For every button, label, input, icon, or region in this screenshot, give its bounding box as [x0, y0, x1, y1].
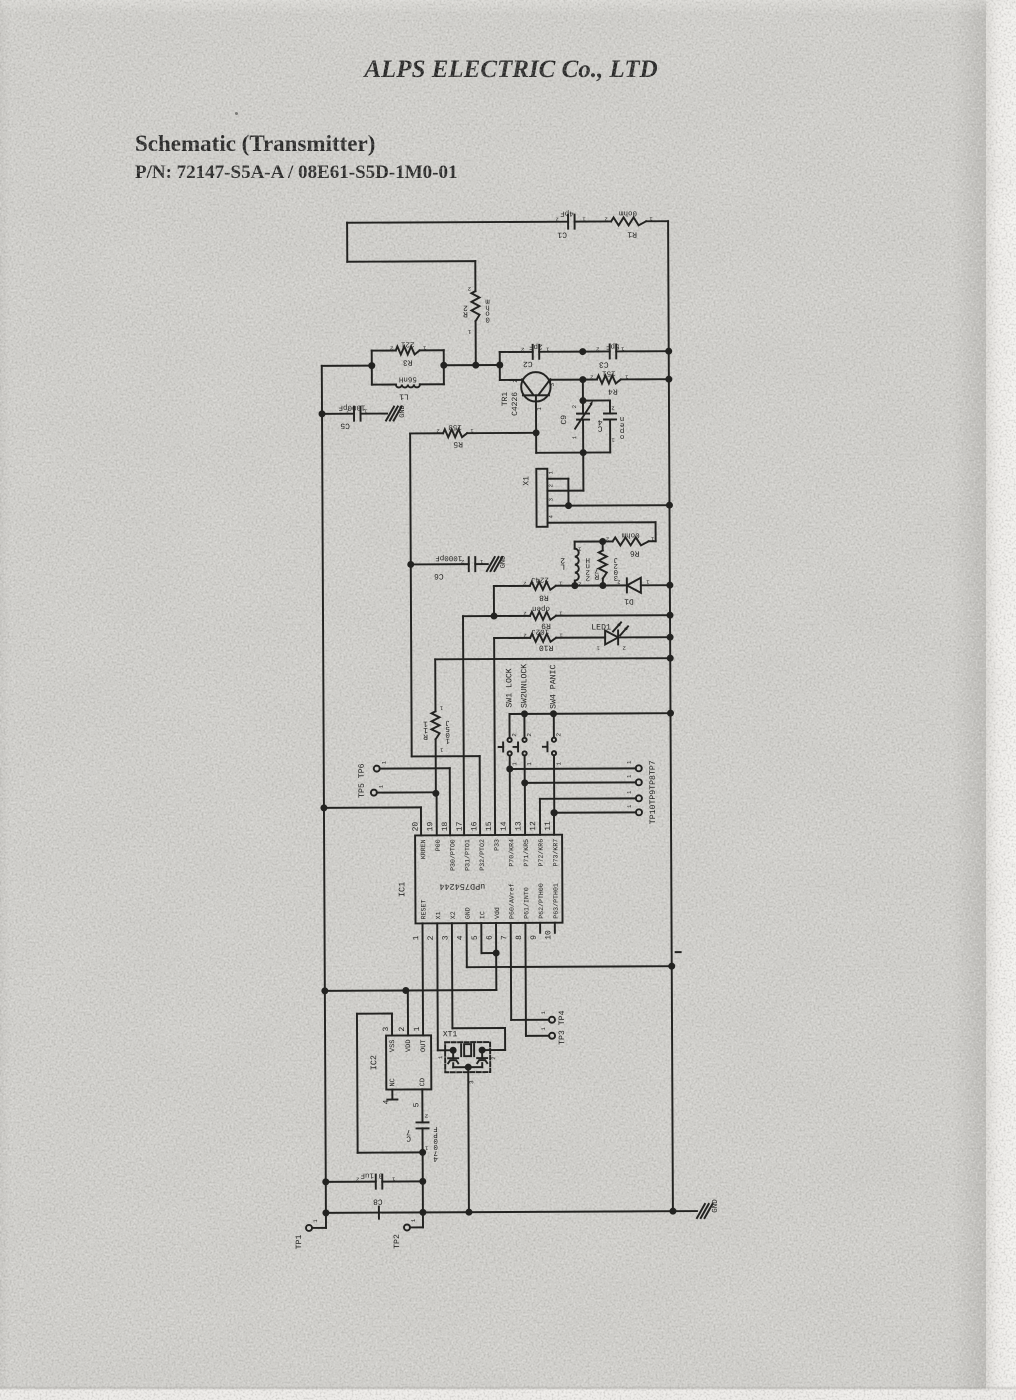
svg-text:Vdd: Vdd: [494, 907, 501, 919]
test point TP3: [540, 1026, 555, 1038]
svg-text:IC: IC: [479, 911, 486, 919]
svg-text:2: 2: [398, 1026, 407, 1031]
svg-text:1: 1: [381, 760, 388, 764]
ground GND bottom: [697, 1199, 720, 1218]
svg-text:7: 7: [500, 935, 509, 940]
svg-text:1: 1: [645, 578, 649, 585]
capacitor C7: [406, 1089, 438, 1162]
wire pin10 stub: [554, 923, 556, 933]
svg-text:D1: D1: [624, 596, 634, 605]
svg-text:2: 2: [622, 644, 625, 651]
svg-text:9: 9: [530, 935, 539, 940]
resistor R10: [494, 627, 563, 652]
svg-text:0ohm: 0ohm: [621, 530, 640, 539]
IC U2 reset IC2: [369, 1026, 431, 1107]
resistor R8: [494, 574, 607, 602]
wire left bus: [322, 366, 326, 1213]
svg-text:1: 1: [312, 1219, 319, 1223]
svg-text:1: 1: [626, 790, 633, 794]
svg-text:TP5 TP6: TP5 TP6: [358, 763, 367, 798]
connector X1: [522, 452, 673, 542]
svg-text:2: 2: [523, 632, 526, 639]
svg-text:102J: 102J: [531, 627, 549, 636]
svg-text:L1: L1: [399, 391, 409, 400]
svg-text:3: 3: [441, 935, 450, 940]
capacitor C1: [555, 208, 611, 238]
svg-text:2: 2: [346, 408, 349, 415]
svg-text:4: 4: [548, 514, 555, 518]
svg-text:2: 2: [425, 1112, 428, 1119]
svg-text:P70/KR4: P70/KR4: [508, 839, 515, 867]
test point TP2: [393, 1212, 423, 1249]
svg-text:C5: C5: [340, 421, 350, 430]
crystal XT1: [437, 1030, 497, 1084]
svg-text:2: 2: [596, 346, 599, 353]
svg-text:C3: C3: [599, 359, 609, 368]
svg-text:R: R: [594, 572, 599, 581]
wire X1 net: [436, 923, 439, 1050]
svg-text:LED1: LED1: [591, 623, 611, 632]
ground GND near C6: [487, 556, 508, 571]
svg-text:16: 16: [470, 821, 479, 831]
label TP10 TP9 TP8 TP7: [649, 760, 658, 824]
svg-text:2: 2: [356, 1176, 359, 1183]
wire node mid: [322, 361, 504, 369]
svg-text:KRREN: KRREN: [420, 839, 427, 859]
svg-text:3: 3: [382, 1027, 391, 1032]
svg-text:15: 15: [485, 821, 494, 831]
svg-text:GND: GND: [465, 907, 472, 919]
svg-text:P62/PTH00: P62/PTH00: [538, 883, 545, 919]
svg-text:IC1: IC1: [397, 882, 407, 897]
capacitor C8: [322, 1170, 426, 1206]
diode D1: [603, 578, 674, 606]
svg-text:18: 18: [441, 821, 450, 831]
wire pin7 to TP4: [511, 923, 549, 1020]
wire pin14 stub: [509, 769, 511, 835]
svg-text:XT1: XT1: [443, 1030, 458, 1039]
wire pin20: [320, 804, 421, 836]
capacitor C2: [500, 342, 583, 368]
wire right bus: [668, 221, 673, 1210]
svg-text:C6: C6: [434, 571, 444, 580]
svg-text:SW4 PANIC: SW4 PANIC: [549, 665, 558, 709]
svg-text:R3: R3: [403, 357, 413, 366]
svg-text:1: 1: [412, 935, 421, 940]
wire R8 left drop: [490, 586, 497, 620]
svg-text:TP10TP9TP8TP7: TP10TP9TP8TP7: [649, 760, 658, 824]
wire IC2 pin3 VSS: [357, 1013, 426, 1156]
svg-text:X1: X1: [435, 911, 442, 919]
wire R9 to pin17: [463, 616, 464, 835]
wire pin11 stub: [550, 809, 557, 835]
capacitor C5: [318, 403, 387, 430]
svg-text:TP2: TP2: [393, 1234, 402, 1249]
test point TP1: [295, 1213, 326, 1250]
svg-text:2: 2: [571, 405, 578, 408]
svg-text:2: 2: [468, 285, 471, 292]
svg-text:20: 20: [412, 822, 421, 832]
svg-text:221: 221: [400, 339, 414, 348]
svg-text:SW2UNLOCK: SW2UNLOCK: [520, 664, 529, 708]
resistor R11: [423, 659, 451, 797]
resistor R1: [604, 208, 668, 238]
svg-text:11: 11: [544, 821, 553, 831]
svg-text:1: 1: [526, 762, 533, 766]
IC U1 uPD754244: [397, 821, 563, 941]
capacitor C3: [579, 341, 672, 368]
svg-text:1: 1: [626, 804, 633, 808]
svg-text:2: 2: [511, 733, 518, 737]
svg-text:P60/AVref: P60/AVref: [509, 883, 516, 919]
svg-text:OUT: OUT: [420, 1039, 428, 1052]
svg-text:1: 1: [445, 736, 450, 744]
svg-text:R: R: [463, 309, 468, 318]
svg-text:1: 1: [437, 1055, 444, 1059]
svg-text:VSS: VSS: [389, 1040, 397, 1053]
svg-text:8: 8: [515, 935, 524, 940]
svg-text:1: 1: [413, 1026, 422, 1031]
svg-text:1: 1: [540, 1010, 547, 1014]
svg-text:3: 3: [547, 498, 554, 501]
svg-text:2: 2: [555, 216, 558, 223]
svg-text:1: 1: [596, 645, 600, 652]
svg-text:3: 3: [468, 1080, 475, 1084]
svg-text:open: open: [532, 604, 550, 612]
test point TP6: [374, 760, 450, 836]
svg-text:2: 2: [611, 404, 614, 411]
svg-text:uPD754244: uPD754244: [439, 881, 485, 891]
svg-text:4pF: 4pF: [560, 209, 574, 217]
svg-text:2: 2: [590, 374, 593, 381]
svg-text:2: 2: [436, 427, 439, 434]
svg-text:4: 4: [456, 935, 465, 940]
svg-text:P33: P33: [494, 839, 501, 851]
svg-text:1: 1: [556, 762, 563, 766]
svg-text:C: C: [597, 424, 602, 433]
LED LED1: [556, 622, 674, 652]
svg-text:2: 2: [512, 379, 519, 383]
svg-text:1: 1: [439, 746, 443, 753]
svg-text:2: 2: [555, 733, 562, 737]
switch SW2: [513, 664, 533, 787]
svg-text:GND: GND: [711, 1199, 720, 1213]
svg-text:1: 1: [467, 328, 471, 335]
svg-text:2: 2: [390, 345, 393, 352]
svg-text:RESET: RESET: [420, 900, 427, 920]
ground GND near C5: [386, 405, 407, 420]
svg-text:2: 2: [461, 558, 464, 565]
resistor R4: [579, 368, 672, 395]
svg-text:C: C: [406, 1133, 411, 1142]
inductor L2: [560, 542, 603, 588]
svg-text:2: 2: [604, 215, 607, 222]
wire pin8 to TP3: [525, 923, 549, 1036]
svg-text:6: 6: [486, 935, 495, 940]
svg-text:17: 17: [456, 821, 465, 831]
svg-text:5: 5: [412, 1102, 421, 1107]
svg-text:1: 1: [378, 784, 385, 788]
svg-text:P72/KR6: P72/KR6: [538, 839, 545, 867]
test point TP4: [540, 1010, 555, 1022]
svg-text:5pF: 5pF: [606, 341, 620, 349]
wire IC2 pin2 VDD: [407, 990, 409, 1035]
svg-text:2: 2: [490, 1056, 497, 1059]
svg-text:R10: R10: [539, 643, 554, 652]
wire R10 to pin15: [493, 638, 496, 835]
part number line: [135, 162, 457, 184]
svg-text:4: 4: [433, 1154, 438, 1162]
svg-text:P63/PTH01: P63/PTH01: [553, 883, 560, 919]
wire base riser: [499, 352, 501, 380]
svg-text:P61/INT0: P61/INT0: [523, 887, 530, 919]
transistor TR1: [500, 372, 583, 433]
resistor R2: [463, 261, 490, 365]
svg-text:2: 2: [523, 580, 526, 587]
subtitle Schematic (Transmitter): [135, 131, 375, 157]
wire X2 net: [452, 923, 505, 1050]
svg-text:X1: X1: [522, 476, 531, 486]
resistor R7: [594, 541, 618, 585]
resistor R9: [463, 603, 674, 630]
switch SW3: [543, 665, 563, 817]
svg-text:1: 1: [511, 762, 518, 766]
svg-text:0.1uF: 0.1uF: [360, 1171, 383, 1180]
svg-text:2pF: 2pF: [529, 342, 543, 351]
svg-text:1: 1: [611, 436, 615, 443]
svg-text:SW1 LOCK: SW1 LOCK: [505, 668, 514, 707]
svg-text:IC2: IC2: [369, 1055, 379, 1070]
svg-text:10: 10: [544, 930, 553, 940]
label TP3 TP4: [558, 1010, 567, 1045]
wire pin13 stub: [524, 783, 526, 835]
svg-text:1: 1: [626, 760, 633, 764]
inductor L1: [372, 374, 444, 400]
svg-text:19: 19: [426, 822, 435, 832]
wire node row659: [435, 655, 674, 663]
resistor R6: [599, 530, 656, 557]
svg-text:1: 1: [439, 704, 443, 711]
svg-text:1000pF: 1000pF: [338, 403, 365, 412]
svg-text:GND: GND: [399, 405, 407, 418]
junction tick: [378, 1207, 380, 1219]
svg-text:TR1: TR1: [501, 392, 510, 407]
wire pin9 stub: [539, 923, 541, 933]
wire Vdd pin6: [321, 923, 496, 994]
svg-text:3: 3: [549, 383, 556, 387]
resistor R5: [410, 422, 540, 449]
svg-text:0ohm: 0ohm: [619, 208, 638, 217]
svg-text:1: 1: [540, 1026, 547, 1030]
svg-text:2: 2: [521, 346, 524, 353]
svg-text:X2: X2: [450, 911, 457, 919]
svg-text:1: 1: [626, 774, 633, 778]
svg-text:C9: C9: [560, 415, 569, 425]
svg-text:2: 2: [617, 578, 620, 585]
svg-text:R8: R8: [539, 593, 549, 602]
svg-text:CD: CD: [419, 1078, 427, 1086]
wire IC2 pin4 NC: [387, 1090, 397, 1100]
label TP5 TP6: [358, 763, 367, 798]
wire top antenna loop: [347, 222, 568, 262]
wire switch rail: [509, 710, 674, 718]
svg-text:C8: C8: [373, 1197, 383, 1206]
svg-text:o: o: [619, 432, 624, 440]
svg-text:P31/PTO1: P31/PTO1: [464, 839, 471, 871]
wire pin16: [412, 756, 480, 835]
wire left mid riser: [410, 433, 412, 756]
svg-text:1: 1: [536, 407, 543, 411]
svg-text:2: 2: [547, 484, 554, 487]
test point TP7: [510, 760, 642, 772]
wire C7 riser: [422, 1152, 424, 1212]
title ALPS ELECTRIC Co., LTD: [0, 56, 1016, 84]
svg-text:TP1: TP1: [295, 1235, 304, 1250]
svg-text:C1: C1: [557, 230, 567, 239]
svg-text:5: 5: [471, 935, 480, 940]
svg-text:2: 2: [526, 733, 533, 737]
svg-text:R: R: [423, 732, 428, 741]
svg-text:R6: R6: [630, 548, 640, 557]
wire IC2 pin1 OUT / IC1 RESET: [422, 923, 425, 1035]
svg-text:1000pF: 1000pF: [435, 553, 462, 562]
test point TP5: [371, 784, 436, 796]
svg-text:VDD: VDD: [405, 1039, 413, 1052]
svg-text:224J: 224J: [531, 575, 549, 584]
svg-text:P00: P00: [435, 839, 442, 851]
svg-text:P71/KR5: P71/KR5: [523, 839, 530, 867]
test point TP9: [540, 790, 642, 835]
wire XT1 pin3: [465, 1067, 473, 1216]
wire GND net pin4: [467, 922, 676, 971]
svg-text:C4226: C4226: [511, 392, 520, 416]
switch SW1: [498, 668, 518, 772]
svg-text:153: 153: [448, 422, 462, 431]
svg-text:R5: R5: [453, 439, 463, 448]
svg-text:P73/KR7: P73/KR7: [552, 839, 559, 867]
svg-text:1: 1: [571, 435, 578, 439]
svg-text:1: 1: [410, 1218, 417, 1222]
svg-text:14: 14: [500, 821, 509, 831]
svg-text:P32/PTO2: P32/PTO2: [479, 839, 486, 871]
wire emitter bottom: [536, 432, 610, 456]
wire pin19 stub: [436, 793, 438, 835]
wire stub speck: [676, 951, 681, 953]
svg-text:L: L: [560, 562, 565, 571]
capacitor C9 trimmer: [560, 380, 593, 453]
svg-text:NC: NC: [389, 1078, 397, 1086]
svg-text:2: 2: [586, 573, 591, 582]
svg-text:P30/PTO0: P30/PTO0: [450, 839, 457, 871]
svg-text:2: 2: [606, 535, 609, 542]
svg-text:2: 2: [523, 610, 526, 617]
wire bottom rail: [322, 1208, 697, 1217]
svg-text:56nH: 56nH: [399, 374, 417, 383]
svg-text:13: 13: [514, 821, 523, 831]
capacitor C4: [583, 400, 625, 452]
test point TP8: [525, 774, 642, 786]
svg-text:0: 0: [485, 315, 490, 324]
svg-text:151: 151: [602, 368, 616, 376]
svg-text:C2: C2: [523, 359, 533, 368]
paper speck: [235, 112, 238, 115]
svg-text:1: 1: [547, 470, 554, 474]
resistor R3: [372, 339, 444, 384]
capacitor C6: [407, 553, 488, 580]
svg-text:R4: R4: [608, 386, 618, 395]
svg-text:12: 12: [529, 821, 538, 831]
wire IC pin5: [481, 923, 499, 957]
svg-text:R1: R1: [627, 229, 637, 238]
svg-text:TP3 TP4: TP3 TP4: [558, 1010, 567, 1045]
test point TP10: [554, 804, 642, 816]
svg-text:GND: GND: [500, 556, 508, 569]
svg-text:2: 2: [427, 935, 436, 940]
